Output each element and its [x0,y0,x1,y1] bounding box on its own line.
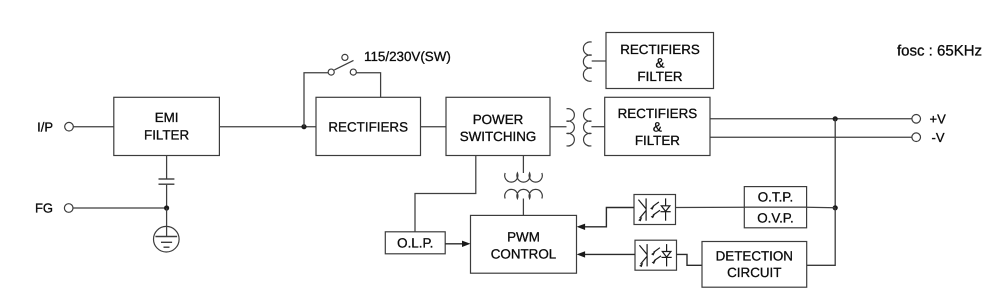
transformer T1 secondary winding [584,109,592,146]
optocoupler U1 [634,195,676,225]
svg-text:O.T.P.: O.T.P. [758,190,793,205]
terminal I/P [65,122,74,131]
transformer T1 primary winding [567,109,575,146]
terminal +V [912,115,921,124]
block O.V.P. [744,207,806,228]
svg-text:+V: +V [930,112,947,127]
svg-text:PWM: PWM [507,230,540,245]
junction node on +V line [833,116,838,121]
wire -V output [710,136,912,138]
wire optocoupler U1 to O.T.P./O.V.P. [676,206,745,208]
block PWM CONTROL [471,215,577,273]
svg-text:fosc : 65KHz: fosc : 65KHz [897,42,982,59]
wire switch to RECTIFIERS top [356,73,380,98]
wire O.L.P. to PWM CONTROL [445,243,463,245]
svg-text:FILTER: FILTER [144,127,189,142]
svg-text:DETECTION: DETECTION [716,248,793,263]
wire EMI FILTER to Y-capacitor [166,156,168,179]
svg-text:POWER: POWER [473,112,524,127]
wire capacitor to FG node [166,185,168,208]
wire POWER SWITCHING to transformer primary [550,126,567,128]
wire optocoupler U2 to PWM CONTROL [584,253,635,255]
wire switch branch left [304,73,328,127]
svg-text:RECTIFIERS: RECTIFIERS [328,119,408,134]
wire +V output [710,118,912,120]
block O.T.P. [744,187,806,208]
block DETECTION CIRCUIT [702,242,807,288]
wire EMI FILTER to RECTIFIERS [219,126,316,128]
svg-text:O.L.P.: O.L.P. [397,235,433,250]
wire T1 secondary to RECTIFIERS &amp; FILTER (main) [591,126,604,128]
wire optocoupler U2 to DETECTION CIRCUIT [677,254,703,265]
svg-text:I/P: I/P [37,120,53,135]
block RECTIFIERS [316,97,421,155]
wire feedback down to DETECTION CIRCUIT [807,208,836,265]
terminal -V [912,133,921,142]
block O.L.P. [385,232,445,254]
junction node FG/ground [164,205,169,210]
wire feedback vertical from +V junction [834,119,836,208]
svg-text:115/230V(SW): 115/230V(SW) [364,49,451,64]
svg-text:FILTER: FILTER [635,133,680,148]
arrow into PWM CONTROL (from U2) [577,251,586,257]
drive transformer T2 top winding [505,173,543,182]
transformer T1 auxiliary winding (top) [583,42,591,81]
optocoupler U2 [635,240,677,270]
wire optocoupler U1 to PWM CONTROL [584,208,634,227]
switch SW1 115/230V [328,54,356,75]
wire O.T.P./O.V.P. to +V feedback [807,206,836,209]
wire RECTIFIERS to POWER SWITCHING [421,126,447,128]
wire FG to ground node [73,207,167,209]
svg-text:O.V.P.: O.V.P. [757,211,793,226]
capacitor C1 (Y-cap) [159,179,175,184]
wire POWER SWITCHING to O.L.P. [415,156,476,232]
block POWER SWITCHING [446,97,550,155]
earth ground symbol [154,226,180,252]
arrow into PWM CONTROL (from U1) [577,224,586,230]
svg-text:CONTROL: CONTROL [491,247,556,262]
block RECTIFIERS &amp; FILTER (top) [606,33,714,89]
terminal FG [64,204,73,213]
svg-text:FILTER: FILTER [637,69,682,84]
wire node to earth ground [166,208,168,237]
wire aux winding to top RECTIFIERS &amp; FILTER [592,60,606,62]
block EMI FILTER [114,97,220,155]
svg-text:SWITCHING: SWITCHING [460,129,537,144]
drive transformer T2 bottom winding [505,189,543,198]
block RECTIFIERS &amp; FILTER (main output) [605,97,710,155]
junction node at switch tap [301,124,306,129]
wire I/P to EMI FILTER [73,126,113,128]
junction node at O.V.P. line [833,205,838,210]
svg-text:-V: -V [932,130,945,145]
svg-text:EMI: EMI [155,110,179,125]
arrow into PWM CONTROL (from O.L.P.) [462,241,471,247]
svg-text:FG: FG [35,201,53,216]
svg-text:CIRCUIT: CIRCUIT [727,265,781,280]
wire drive transformer T2 to PWM CONTROL [522,199,524,216]
wire POWER SWITCHING to drive transformer T2 [522,156,524,174]
